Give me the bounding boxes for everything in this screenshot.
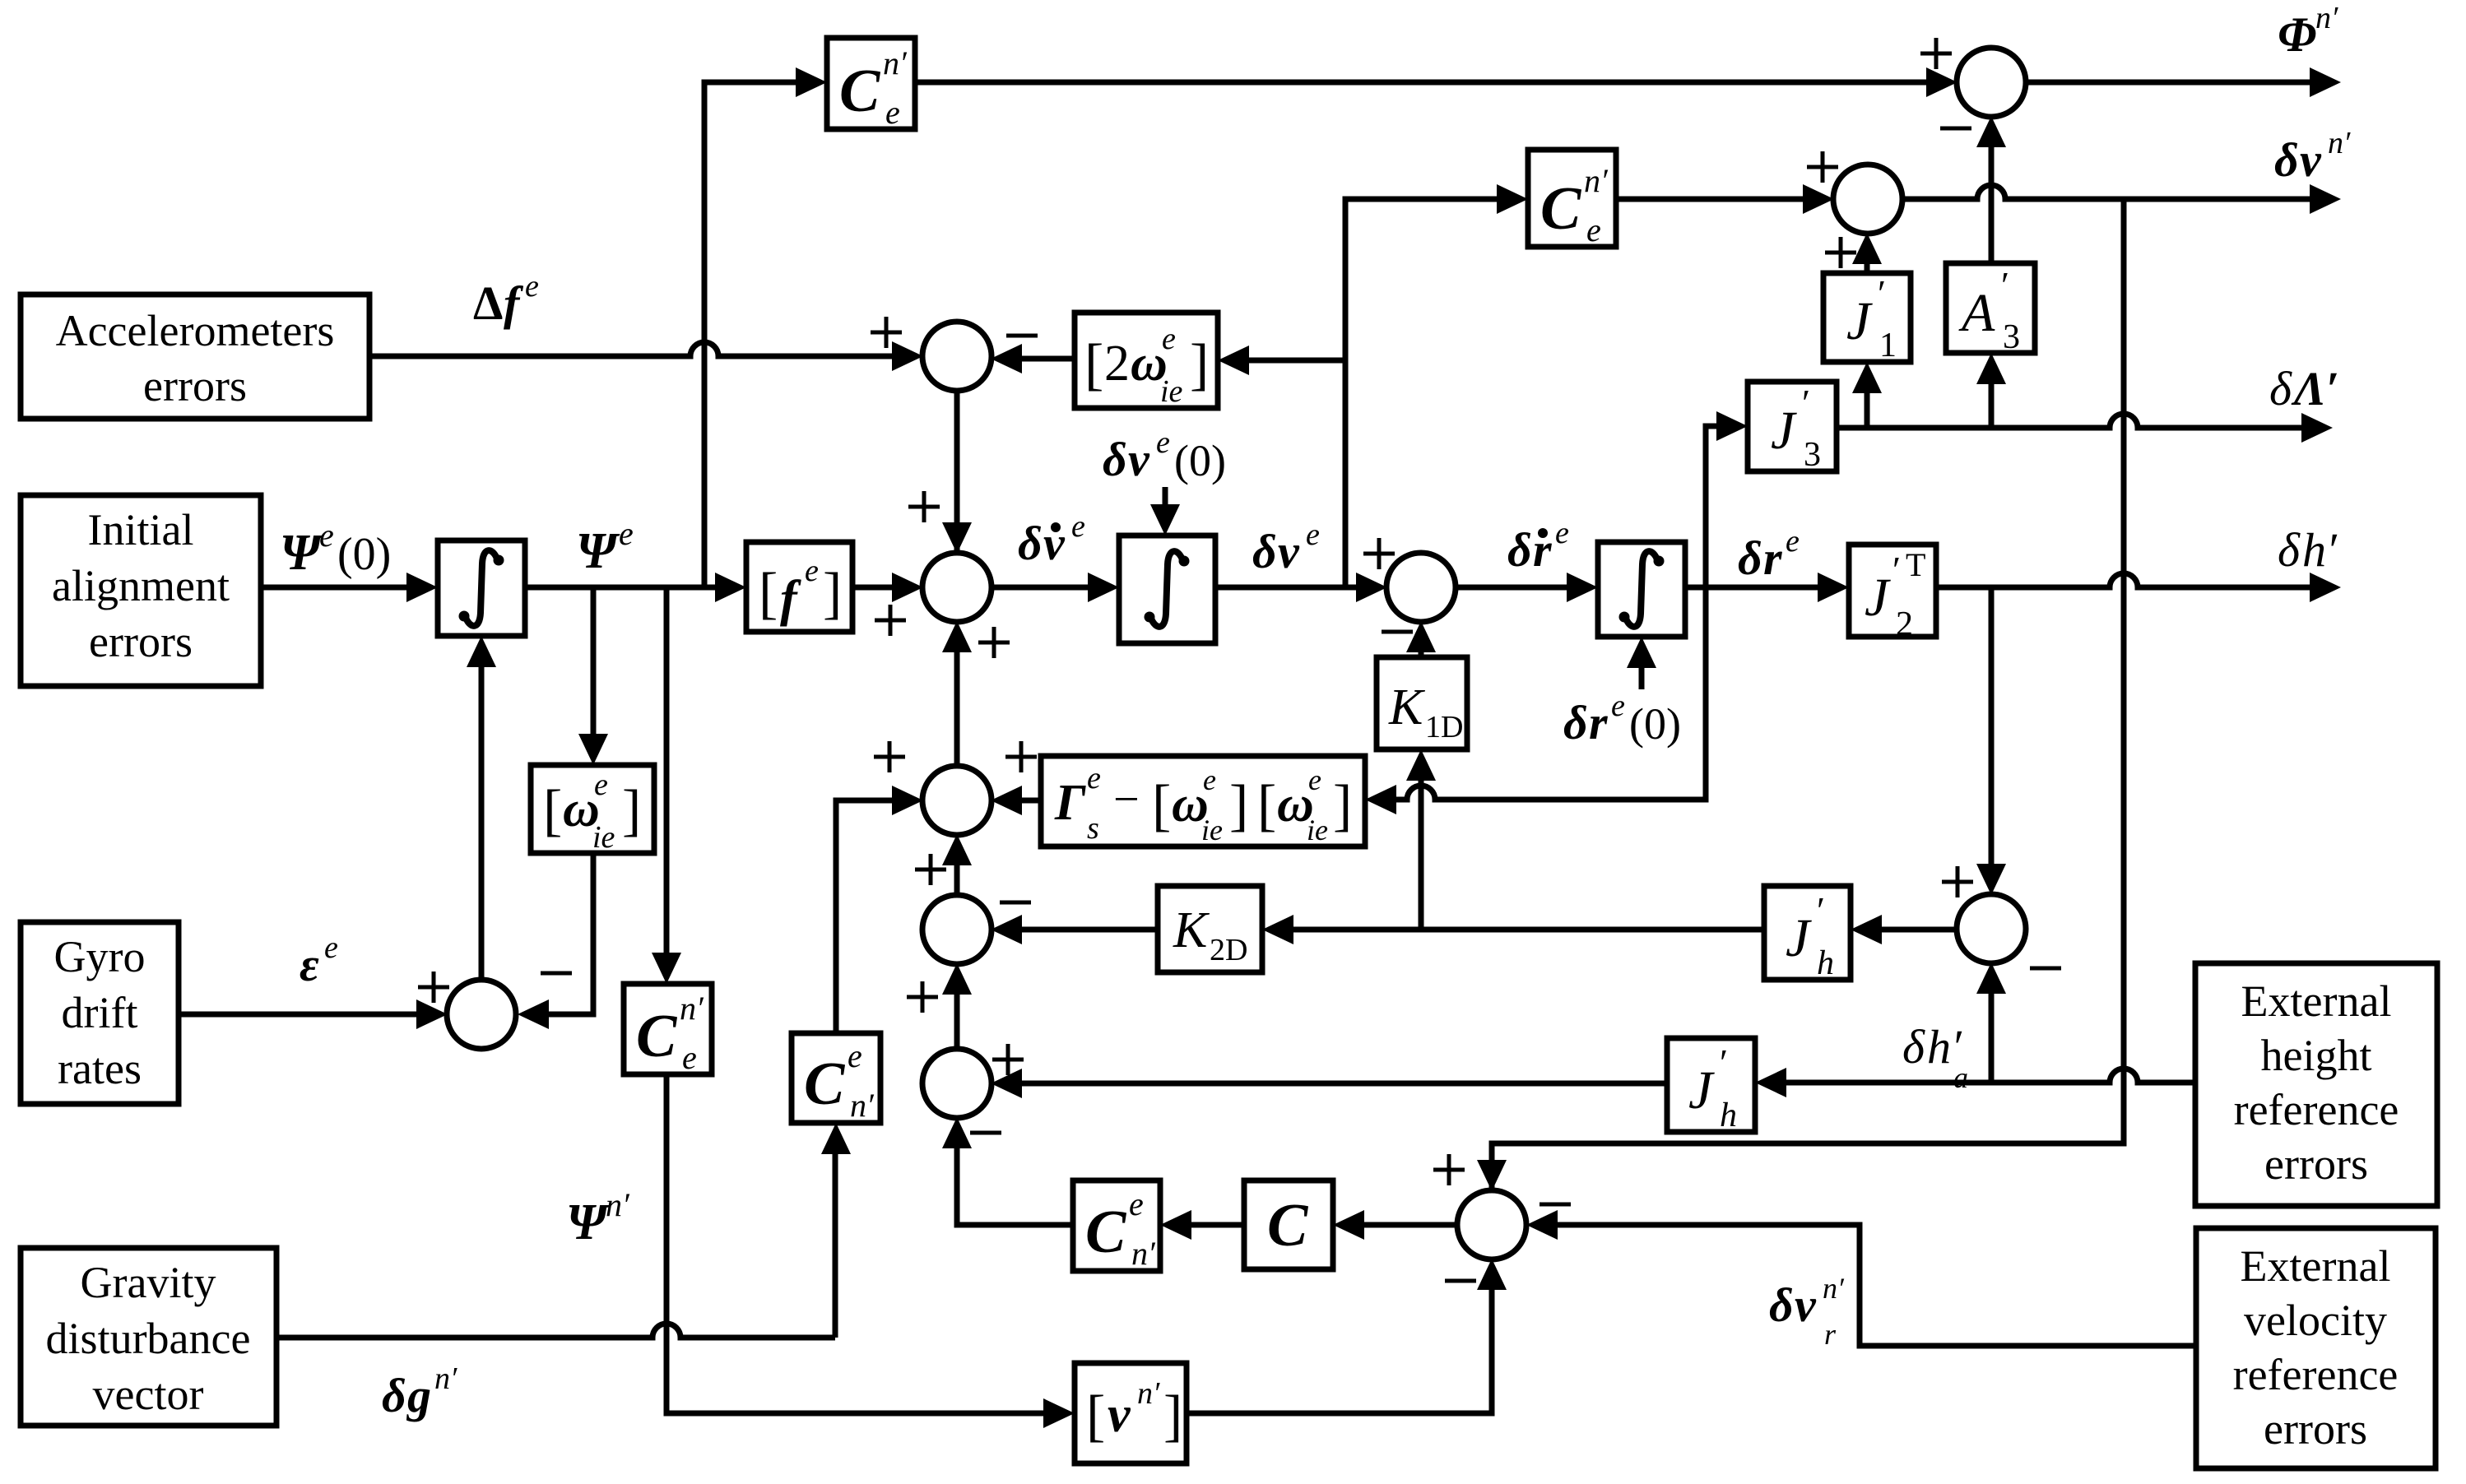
- wire: delta r^e branch down to Gamma box feedback row (hops over K_1D feed): [1391, 587, 1706, 800]
- label C_n-prime^e gravity path: [804, 1037, 875, 1124]
- label Gamma_s^e - [omega_ie^e][omega_ie^e]: [1054, 761, 1352, 846]
- svg-text:[: [: [1257, 774, 1276, 837]
- wire: Psi^n-prime line down and right into [v^n-prime] box: [666, 1074, 1048, 1413]
- plus sign S8 right input: [992, 1044, 1024, 1075]
- wire: J_h-prime upper output to K_2D box: [1289, 927, 1764, 933]
- svg-text:Ψ: Ψ: [566, 1194, 611, 1250]
- svg-text:r: r: [1589, 696, 1608, 749]
- svg-text:r: r: [1763, 531, 1782, 585]
- label [v^n-prime]: [1086, 1376, 1182, 1448]
- wire: A_3-prime output up into S1 bottom: [1989, 142, 1995, 263]
- minus sign S8 bottom input: [970, 1131, 1001, 1135]
- svg-text:C: C: [804, 1050, 846, 1118]
- svg-text:[: [: [543, 779, 562, 842]
- label Psi^n-prime: [566, 1186, 630, 1250]
- svg-text:Initial: Initial: [88, 505, 194, 554]
- wire: S3 output down into S4: [954, 390, 960, 580]
- integral sign INT2: [1151, 551, 1182, 627]
- svg-text:(0): (0): [337, 529, 391, 580]
- svg-text:ε: ε: [300, 938, 319, 991]
- label delta h-prime: [2278, 523, 2338, 577]
- gain block C_e^n-prime (middle): [1528, 150, 1616, 247]
- wire: delta g n-prime from gravity box, hop over Psi n-prime line: [276, 1324, 835, 1338]
- gain block K_2D: [1158, 886, 1262, 972]
- svg-text:1: 1: [1879, 327, 1897, 364]
- gain block [v^n-prime]: [1075, 1363, 1187, 1463]
- svg-text:n′: n′: [2328, 126, 2351, 160]
- label delta v-dot e: [1018, 509, 1085, 570]
- wire: C box output to velocity-chain C box: [1187, 1222, 1244, 1228]
- svg-text:n′: n′: [1137, 1376, 1160, 1411]
- svg-text:n′: n′: [883, 44, 908, 81]
- svg-text:e: e: [525, 269, 539, 304]
- gain block C_n-prime^e (velocity chain): [1073, 1180, 1160, 1271]
- svg-text:2: 2: [1896, 605, 1913, 643]
- svg-text:Φ: Φ: [2278, 7, 2316, 62]
- wire: S9 output up into integrator INT1: [479, 662, 485, 981]
- label Psi^e(0): [280, 517, 391, 581]
- svg-text:−: −: [1113, 774, 1140, 825]
- svg-text:δ: δ: [1507, 523, 1532, 577]
- svg-text:J: J: [1688, 1060, 1715, 1120]
- plus sign S2 left input: [1807, 151, 1838, 183]
- label C_e^n-prime top: [839, 44, 908, 131]
- wire: Psi^e branch up to top C_e^n-prime box: [704, 82, 801, 587]
- svg-text:ie: ie: [1160, 374, 1183, 409]
- wire: delta r^e branch up into J_3-prime box: [1706, 426, 1721, 587]
- svg-text:e: e: [1786, 524, 1800, 559]
- label delta v^e(0): [1103, 425, 1226, 486]
- svg-text:n′: n′: [680, 990, 704, 1027]
- svg-text:v: v: [1278, 525, 1300, 578]
- plus sign S1 left input: [1920, 38, 1952, 69]
- wire: branch from J_h-prime line up into K_1D bottom: [1419, 776, 1424, 930]
- gain block C_e^n-prime (lower): [624, 984, 712, 1074]
- svg-text:e: e: [1203, 763, 1216, 796]
- label C_n-prime^e velocity chain: [1085, 1185, 1156, 1272]
- svg-text:Γ: Γ: [1054, 775, 1086, 831]
- svg-text:e: e: [594, 768, 608, 802]
- source box: External velocity reference errors: [2196, 1228, 2436, 1468]
- plus sign S4 bottom input: [978, 627, 1010, 658]
- wire: Delta f^e from accelerometers to sum S3, hop over Psi branch: [369, 342, 897, 356]
- integrator INT1 (attitude error): [438, 540, 525, 636]
- label delta r^e(0): [1563, 689, 1681, 749]
- minus sign S7 right input: [1000, 901, 1031, 905]
- summing junction S9 (gyro): [447, 980, 516, 1049]
- gain block [f^e]: [746, 542, 852, 632]
- svg-text:h′: h′: [2302, 523, 2338, 577]
- gain block Gamma_s^e minus [omega][omega]: [1041, 756, 1365, 846]
- summing junction S1 (Phi n-prime): [1957, 48, 2026, 117]
- gain block J_h-prime (lower): [1667, 1038, 1755, 1132]
- svg-text:2D: 2D: [1210, 933, 1247, 967]
- svg-text:J: J: [1786, 908, 1812, 968]
- gain block C (smoothing): [1244, 1180, 1333, 1269]
- summing junction S3 (Coriolis): [922, 322, 992, 391]
- svg-text:δ: δ: [382, 1369, 406, 1422]
- label delta r-dot e: [1507, 516, 1569, 577]
- label J_2-prime-T: [1865, 546, 1925, 643]
- svg-text:C: C: [1267, 1192, 1309, 1259]
- wire: delta v n-prime output row, hop over A3 line: [1902, 185, 2316, 199]
- wire: S4 output to integrator INT2: [991, 585, 1093, 591]
- wire: branch up into J_1-prime bottom: [1865, 388, 1870, 428]
- gain block J_1-prime: [1823, 273, 1911, 362]
- plus sign S9 left input: [418, 972, 449, 1003]
- label C_e^n-prime middle: [1540, 162, 1609, 248]
- wire: S6 output up into S4 bottom: [954, 647, 960, 767]
- label Delta f^e: [473, 269, 539, 330]
- gain block [omega_ie^e]: [531, 765, 654, 853]
- svg-text:errors: errors: [2264, 1139, 2368, 1189]
- summing junction S8 (height row): [922, 1049, 992, 1118]
- svg-text:n′: n′: [1584, 162, 1609, 199]
- svg-text:reference: reference: [2234, 1085, 2399, 1134]
- plus sign S6 bottom input: [915, 854, 946, 885]
- summing junction S4 (specific force error sum): [922, 553, 992, 622]
- svg-text:′: ′: [2001, 264, 2009, 306]
- wire: S10 output to J_h-prime upper box: [1877, 927, 1957, 933]
- minus sign S11 bottom input: [1445, 1279, 1476, 1283]
- label [f^e]: [759, 554, 842, 627]
- svg-text:Ψ: Ψ: [576, 523, 620, 579]
- source box: Gravity disturbance vector: [21, 1248, 276, 1426]
- summing junction S2 (delta v n-prime): [1833, 165, 1902, 234]
- wire: v^n-prime box output right and up into S11 bottom: [1187, 1285, 1492, 1413]
- svg-text:drift: drift: [62, 988, 138, 1037]
- svg-text:1D: 1D: [1425, 710, 1463, 744]
- svg-text:[: [: [1084, 333, 1103, 397]
- svg-text:C: C: [636, 1003, 678, 1070]
- wire: gyro drift rates to sum S9: [179, 1012, 421, 1018]
- svg-text:]: ]: [1190, 333, 1209, 397]
- summing junction S10 (height comparison): [1957, 894, 2026, 963]
- wire: Psi^e branch down to [omega ie e] box: [591, 587, 597, 739]
- gain block K_1D: [1377, 657, 1467, 749]
- summing junction S7 (K2D row): [922, 895, 992, 964]
- svg-text:[: [: [759, 562, 778, 625]
- svg-text:a: a: [1953, 1061, 1968, 1094]
- integral sign INT1: [466, 550, 497, 626]
- svg-text:rates: rates: [58, 1044, 142, 1093]
- wire: integrator INT1 output Psi^e to [f e] box: [525, 585, 720, 591]
- svg-text:[: [: [1152, 774, 1171, 837]
- svg-text:External: External: [2241, 976, 2392, 1026]
- wire: middle C box to sum S2: [1616, 197, 1808, 202]
- wire: branch left into [2omega] box: [1244, 358, 1345, 364]
- svg-text:v: v: [1795, 1278, 1817, 1332]
- plus sign S4 left input: [875, 605, 906, 636]
- wire: initial alignment errors to integrator INT1: [261, 585, 411, 591]
- svg-text:n′: n′: [1131, 1235, 1156, 1272]
- source box: Gyro drift rates: [21, 922, 179, 1104]
- svg-text:r: r: [1824, 1318, 1837, 1351]
- label delta v_r^n-prime: [1769, 1272, 1845, 1351]
- svg-text:′: ′: [1802, 382, 1810, 424]
- svg-text:]: ]: [1333, 774, 1352, 837]
- svg-text:Δ: Δ: [473, 276, 503, 330]
- wire: branch up into A_3-prime bottom: [1989, 379, 1995, 428]
- svg-text:v: v: [1128, 433, 1150, 486]
- svg-text:reference: reference: [2233, 1350, 2399, 1399]
- wire: INT2 output delta v^e to sum S5: [1215, 585, 1361, 591]
- svg-text:δ: δ: [1769, 1278, 1794, 1332]
- wire: delta Lambda-prime output row: [1837, 414, 2308, 428]
- source box: External height reference errors: [2195, 963, 2437, 1206]
- svg-text:errors: errors: [89, 617, 193, 666]
- plus sign S6 left input: [874, 741, 905, 772]
- svg-text:velocity: velocity: [2244, 1296, 2387, 1345]
- wire: omega box output to gyro sum S9: [544, 853, 593, 1014]
- svg-text:Gyro: Gyro: [54, 932, 146, 981]
- svg-text:J: J: [1771, 401, 1797, 461]
- plus sign S2 bottom input: [1825, 237, 1856, 268]
- wire: S11 output to C box: [1359, 1222, 1459, 1228]
- label C_e^n-prime lower: [636, 990, 704, 1076]
- svg-text:e: e: [885, 94, 900, 131]
- svg-text:3: 3: [1804, 436, 1821, 474]
- wire: delta h-prime output row: [1936, 573, 2316, 587]
- svg-text:[: [: [1086, 1384, 1105, 1448]
- minus sign S3 right input: [1006, 334, 1038, 338]
- label J_h-prime upper: [1786, 889, 1834, 982]
- label K_2D: [1173, 902, 1247, 967]
- svg-text:e: e: [1071, 509, 1085, 544]
- svg-text:vector: vector: [93, 1370, 204, 1419]
- integral sign INT3: [1626, 551, 1657, 627]
- svg-text:g: g: [406, 1369, 431, 1422]
- gain block [2 omega_ie^e]: [1075, 313, 1218, 408]
- svg-text:ie: ie: [1307, 814, 1328, 846]
- svg-text:e: e: [1308, 763, 1321, 796]
- svg-text:e: e: [619, 515, 634, 552]
- svg-text:J: J: [1846, 291, 1873, 351]
- svg-text:height: height: [2261, 1031, 2372, 1080]
- svg-text:e: e: [324, 930, 338, 965]
- integrator INT3 (position error): [1598, 542, 1685, 637]
- wire: Phi row from top C box to sum S1: [915, 80, 1931, 86]
- svg-text:h: h: [1720, 1097, 1737, 1134]
- minus sign S1 bottom input: [1940, 127, 1971, 131]
- wire: delta v n-prime feedback down and left into sum S11 top: [1492, 199, 2124, 1217]
- label delta r^e: [1738, 524, 1800, 585]
- wire: 2omega box to S3 right input: [1017, 356, 1075, 362]
- svg-text:errors: errors: [143, 361, 247, 410]
- svg-text:δ: δ: [1738, 531, 1762, 585]
- svg-text:′: ′: [1878, 272, 1886, 314]
- integrator INT2 (velocity error): [1119, 536, 1215, 643]
- svg-text:δ: δ: [2269, 362, 2292, 415]
- svg-text:Ψ: Ψ: [280, 525, 324, 581]
- wire: INT3 output delta r^e to J_2-prime-T box: [1685, 585, 1823, 591]
- svg-text:(0): (0): [1629, 699, 1681, 749]
- summing junction S11 (velocity comparison): [1457, 1190, 1526, 1259]
- svg-text:ie: ie: [1201, 814, 1223, 846]
- wire: S7 output up into S6 bottom: [954, 860, 960, 896]
- label delta v^n-prime: [2274, 126, 2351, 187]
- svg-text:e: e: [1156, 425, 1170, 460]
- wire: Gamma box output to sum S6: [1017, 798, 1041, 804]
- minus sign S11 right input: [1540, 1203, 1571, 1207]
- svg-text:C: C: [839, 58, 881, 125]
- svg-text:v: v: [1108, 1387, 1131, 1443]
- label [2 omega_ie^e]: [1084, 322, 1209, 409]
- svg-text:v: v: [2300, 133, 2322, 187]
- gain block C_e^n-prime (top): [827, 38, 915, 129]
- gain block J_3-prime: [1748, 382, 1837, 471]
- wire: delta v^e(0) down into INT2 top: [1163, 487, 1168, 509]
- plus sign S3 left input: [871, 317, 902, 348]
- label delta h_a-prime: [1902, 1020, 1968, 1094]
- label J_3-prime: [1771, 382, 1821, 474]
- svg-text:Accelerometers: Accelerometers: [56, 306, 335, 355]
- svg-text:K: K: [1173, 902, 1210, 958]
- svg-text:K: K: [1388, 679, 1426, 735]
- dot over r (delta r-dot): [1538, 528, 1548, 538]
- svg-text:e: e: [1129, 1185, 1144, 1222]
- svg-text:n′: n′: [434, 1361, 457, 1396]
- label [omega_ie^e]: [543, 768, 641, 855]
- svg-text:2: 2: [1104, 336, 1130, 392]
- svg-text:e: e: [1306, 517, 1320, 552]
- svg-text:′: ′: [1720, 1041, 1728, 1083]
- svg-text:]: ]: [622, 779, 641, 842]
- svg-text:e: e: [682, 1039, 697, 1076]
- svg-text:′: ′: [1817, 889, 1825, 931]
- svg-text:n′: n′: [850, 1087, 875, 1124]
- wire: K_1D output up into S5: [1419, 647, 1424, 657]
- wire: delta h_a branch up into S10 bottom: [1989, 989, 1995, 1083]
- plus sign S7 bottom input: [907, 981, 938, 1013]
- wire: K_2D output to S7 right input: [1017, 927, 1158, 933]
- label delta g^n-prime: [382, 1361, 457, 1422]
- svg-text:δ: δ: [2274, 133, 2299, 187]
- svg-text:External: External: [2241, 1241, 2391, 1291]
- label delta v^e: [1252, 517, 1320, 578]
- svg-text:δ: δ: [1902, 1020, 1925, 1074]
- svg-text:T: T: [1906, 546, 1925, 583]
- plus sign S10 top input: [1942, 866, 1973, 897]
- plus sign S5 left input: [1363, 538, 1395, 569]
- wire: delta h-prime branch down into S10 top: [1989, 587, 1995, 869]
- label epsilon^e: [300, 930, 338, 991]
- plus sign S11 top input: [1433, 1154, 1465, 1185]
- svg-text:h: h: [1817, 944, 1834, 982]
- svg-text:δ: δ: [1563, 696, 1588, 749]
- minus sign S5 bottom input: [1382, 630, 1413, 634]
- svg-text:n′: n′: [2315, 1, 2338, 35]
- wire: velocity-chain C box output up into S8 bottom: [957, 1143, 1073, 1225]
- svg-text:Λ′: Λ′: [2291, 362, 2339, 415]
- svg-text:C: C: [1540, 175, 1582, 243]
- svg-text:e: e: [1611, 689, 1625, 723]
- wire: gravity-path C box output up into S6 left: [836, 800, 897, 1033]
- svg-text:]: ]: [1163, 1384, 1182, 1448]
- source box: Accelerometers errors: [21, 294, 369, 419]
- label A_3-prime: [1958, 264, 2020, 356]
- label Phi^n-prime: [2278, 1, 2338, 62]
- minus sign S9 right input: [541, 972, 572, 976]
- wire: Phi n-prime output: [2025, 80, 2316, 86]
- svg-text:δ: δ: [1018, 517, 1043, 570]
- wire: external velocity reference errors into S11 right: [1553, 1225, 2196, 1346]
- dot over v (delta v-dot): [1051, 522, 1061, 532]
- label delta Lambda-prime: [2269, 362, 2339, 415]
- svg-text:e: e: [1586, 211, 1601, 248]
- svg-text:s: s: [1087, 811, 1099, 846]
- svg-text:n′: n′: [606, 1186, 630, 1223]
- wire: delta v branch up to middle C_e^n-prime box: [1345, 199, 1502, 587]
- svg-text:δ: δ: [1103, 433, 1127, 486]
- svg-text:δ: δ: [2278, 523, 2301, 577]
- svg-text:]: ]: [1229, 774, 1248, 837]
- gain block J_2-prime-T: [1849, 545, 1936, 637]
- svg-text:e: e: [1162, 322, 1176, 356]
- plus sign S4 top input: [908, 491, 940, 522]
- svg-text:Gravity: Gravity: [81, 1258, 216, 1307]
- gain block A_3-prime: [1946, 263, 2035, 353]
- summing junction S5 (position rate sum): [1386, 553, 1456, 622]
- wire: delta r^e(0) up into INT3 bottom: [1639, 663, 1645, 689]
- wire: S5 output delta r-dot to integrator INT3: [1455, 585, 1572, 591]
- svg-text:3: 3: [2003, 318, 2020, 356]
- plus sign S6 right input: [1005, 741, 1037, 772]
- label K_1D: [1388, 679, 1463, 744]
- gain block J_h-prime (upper): [1764, 886, 1851, 980]
- svg-text:C: C: [1085, 1199, 1127, 1266]
- svg-text:′: ′: [1892, 549, 1901, 591]
- wire: Psi^e branch down to lower C_e^n-prime box: [664, 587, 670, 958]
- svg-text:(0): (0): [1174, 436, 1226, 485]
- gain block C_n-prime^e (gravity path): [792, 1033, 880, 1123]
- svg-text:alignment: alignment: [52, 561, 230, 610]
- minus sign S10 bottom input: [2030, 967, 2061, 971]
- svg-text:n′: n′: [1823, 1272, 1845, 1305]
- svg-text:ie: ie: [592, 820, 615, 855]
- svg-text:e: e: [1555, 516, 1569, 550]
- svg-text:e: e: [1087, 761, 1101, 795]
- wire: J_h-prime lower output to S8 right input: [1017, 1081, 1667, 1087]
- svg-text:e: e: [805, 554, 819, 588]
- svg-text:]: ]: [823, 562, 842, 625]
- wire: delta h_a from external height box to J_h-prime lower, hop over feedback line: [1781, 1069, 2195, 1083]
- svg-text:errors: errors: [2264, 1404, 2367, 1454]
- svg-text:e: e: [319, 517, 334, 554]
- svg-text:J: J: [1865, 568, 1891, 628]
- source box: Initial alignment errors: [21, 495, 261, 686]
- svg-text:disturbance: disturbance: [46, 1314, 251, 1363]
- svg-text:A: A: [1958, 283, 1995, 343]
- label Psi^e: [576, 515, 634, 579]
- wire: S8 output up into S7 bottom: [954, 990, 960, 1050]
- label J_h-prime lower: [1688, 1041, 1737, 1134]
- svg-text:δ: δ: [1252, 525, 1277, 578]
- svg-text:e: e: [848, 1037, 862, 1074]
- wire: J_1-prime output up into S2 bottom: [1865, 259, 1870, 273]
- label J_1-prime: [1846, 272, 1897, 364]
- summing junction S6 (gravity sum): [922, 766, 992, 835]
- wire: f^e box to sum S4: [852, 585, 897, 591]
